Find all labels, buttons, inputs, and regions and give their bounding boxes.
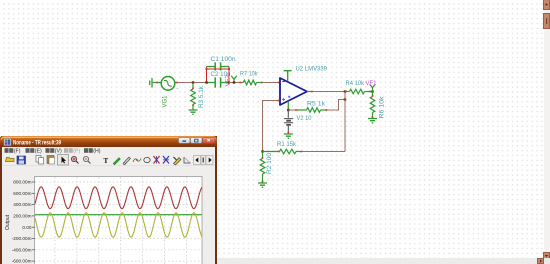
- svg-text:R1 15k: R1 15k: [277, 142, 297, 148]
- ground (R3): [189, 110, 198, 114]
- node output: [344, 90, 346, 92]
- max button: [191, 138, 203, 144]
- svg-text:0.00: 0.00: [22, 225, 32, 230]
- svg-text:R6 10k: R6 10k: [380, 95, 386, 118]
- svg-text:-200.00m: -200.00m: [12, 236, 32, 241]
- svg-text:+: +: [176, 86, 179, 91]
- vertical scrollbar track: [544, 0, 550, 258]
- svg-text:U2 LMV339: U2 LMV339: [296, 67, 328, 73]
- capacitor C1 (top branch): [207, 62, 230, 70]
- voltage generator VG1: [157, 77, 178, 91]
- svg-text:R5 1k: R5 1k: [307, 102, 326, 108]
- svg-text:-400.00m: -400.00m: [12, 247, 32, 252]
- axis ticks: [32, 182, 35, 261]
- wire R5 to output column: [327, 100, 345, 111]
- yellow input trace: [35, 213, 202, 238]
- wire VG1 to R3 node: [178, 82, 207, 84]
- node divider: [261, 150, 263, 152]
- toolbar: [2, 154, 215, 166]
- node C left: [205, 81, 207, 83]
- svg-text:VG1: VG1: [163, 95, 169, 108]
- svg-text:T: T: [104, 157, 109, 165]
- axis labels: [12, 180, 32, 264]
- node R5/column: [344, 98, 346, 100]
- battery V2: [284, 119, 293, 125]
- svg-text:400.00m: 400.00m: [13, 202, 31, 207]
- node U2 bottom: [287, 109, 289, 111]
- resistor R1: [263, 149, 303, 154]
- chart panel: [2, 166, 215, 264]
- svg-text:-600.00m: -600.00m: [12, 259, 32, 264]
- comparator U2 LMV339: [280, 78, 307, 105]
- window icon: [4, 139, 11, 146]
- plot area: [35, 177, 203, 264]
- node at R3: [192, 81, 194, 83]
- resistor R2: [260, 152, 265, 183]
- capacitor C2 (main line): [207, 77, 230, 87]
- red output trace: [35, 187, 202, 209]
- vertical scrollbar up button: [543, 0, 550, 10]
- U2 bottom pin: [287, 101, 289, 110]
- toolbar icons: [6, 155, 214, 166]
- svg-text:VF2: VF2: [226, 74, 232, 86]
- horizontal scrollbar track: [0, 258, 544, 264]
- U2 supply bar: [284, 71, 292, 81]
- title bar: [0, 136, 217, 147]
- wire output column: [344, 92, 346, 152]
- wire + input: [263, 101, 280, 152]
- svg-text:(V): (V): [55, 149, 62, 155]
- svg-text:R7 10k: R7 10k: [240, 72, 258, 78]
- ground (V2): [284, 134, 293, 138]
- gridlines: [35, 177, 202, 264]
- horizontal scrollbar right button: [537, 258, 544, 264]
- resistor R7: [240, 80, 263, 85]
- TR result window: [0, 136, 217, 264]
- svg-text:(H): (H): [93, 149, 100, 155]
- window border: [1, 137, 216, 264]
- ground (VG1 left): [150, 78, 157, 88]
- U2 output pin: [307, 91, 313, 93]
- wire R1 to output column: [302, 151, 345, 153]
- svg-text:Output: Output: [5, 214, 11, 230]
- svg-text:(P): (P): [73, 149, 80, 155]
- wire R7 to U2 inverting input: [263, 82, 280, 84]
- wire output: [313, 91, 346, 93]
- voltage pin VF2: [231, 76, 237, 83]
- wire cap to VF2 node: [229, 82, 240, 84]
- vertical scrollbar thumb: [543, 13, 550, 29]
- green threshold trace: [35, 214, 202, 216]
- svg-text:VF1: VF1: [366, 81, 378, 87]
- window body: [0, 136, 217, 264]
- svg-text:Noname - TR result:39: Noname - TR result:39: [13, 140, 61, 146]
- svg-text:C1 100n: C1 100n: [211, 57, 236, 63]
- svg-text:200.00m: 200.00m: [13, 214, 31, 219]
- menu bar: [2, 147, 215, 154]
- resistor R5: [296, 108, 328, 113]
- voltage pin VF1: [370, 84, 376, 91]
- svg-text:V2 10: V2 10: [297, 116, 313, 122]
- svg-text:800.00m: 800.00m: [13, 180, 31, 185]
- svg-text:(E): (E): [35, 149, 42, 155]
- svg-text:600.00m: 600.00m: [13, 191, 31, 196]
- node C right: [228, 81, 230, 83]
- resistor R4: [345, 89, 373, 94]
- wire node to R5: [288, 109, 295, 111]
- selection box (C2 selected): [207, 67, 230, 83]
- vertical scrollbar down button: [543, 252, 550, 259]
- svg-text:R3 5.1k: R3 5.1k: [199, 85, 205, 108]
- resistor R6: [370, 92, 375, 119]
- svg-text:(F): (F): [14, 149, 21, 155]
- node VF1: [371, 90, 373, 92]
- ground (R6): [368, 119, 377, 123]
- svg-text:R4 10k: R4 10k: [346, 81, 365, 87]
- scrollbar corner: [544, 258, 550, 264]
- svg-text:R2 100: R2 100: [267, 152, 273, 174]
- ground (R2): [258, 183, 267, 187]
- close button: [203, 138, 216, 144]
- min button: [179, 138, 191, 144]
- resistor R3: [191, 83, 196, 110]
